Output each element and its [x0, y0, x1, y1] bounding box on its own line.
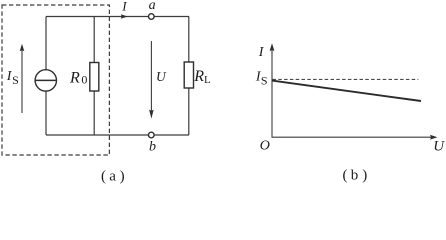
voltage arrow U — [150, 41, 152, 112]
wire: RL branch vertical — [188, 17, 190, 136]
svg-text:b: b — [351, 168, 359, 184]
current source IS (circle symbol) — [35, 70, 56, 91]
svg-text:S: S — [12, 73, 19, 87]
current arrow I on top wire — [121, 14, 128, 18]
current source bar — [35, 79, 56, 81]
svg-text:L: L — [204, 74, 211, 86]
U axis (graph) — [272, 136, 432, 138]
dashed level line at IS — [273, 78, 419, 80]
svg-text:): ) — [120, 168, 125, 184]
wire: top conductor from source branch to RL branch — [46, 16, 189, 18]
dashed box (practical current-source network) — [2, 5, 109, 155]
svg-text:R: R — [193, 68, 204, 85]
svg-text:a: a — [109, 168, 116, 184]
IS reference arrow — [21, 50, 23, 114]
svg-text:O: O — [260, 139, 270, 154]
wire: bottom conductor from source branch to RL branch — [46, 134, 189, 136]
svg-text:U: U — [433, 138, 445, 154]
svg-text:I: I — [258, 45, 265, 60]
svg-text:b: b — [149, 139, 156, 154]
svg-text:(: ( — [101, 168, 106, 184]
svg-text:a: a — [149, 0, 156, 13]
resistor RL — [184, 62, 193, 88]
svg-text:R: R — [69, 69, 80, 86]
svg-text:(: ( — [343, 168, 348, 184]
load characteristic line — [272, 81, 421, 101]
svg-text:I: I — [121, 0, 127, 13]
I axis (graph) — [271, 50, 273, 138]
svg-text:): ) — [362, 168, 367, 184]
terminal b — [149, 132, 155, 138]
resistor R0 — [90, 63, 99, 92]
svg-text:U: U — [156, 69, 167, 84]
svg-text:0: 0 — [81, 73, 87, 87]
terminal a — [149, 14, 155, 20]
wire: left source branch vertical — [45, 17, 47, 136]
svg-text:S: S — [261, 74, 268, 88]
wire: R0 branch vertical — [93, 17, 95, 136]
